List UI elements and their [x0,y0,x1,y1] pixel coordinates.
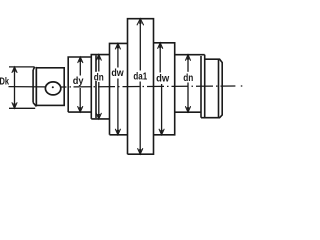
svg-text:da1: da1 [133,70,147,82]
svg-text:dw: dw [156,73,170,85]
svg-text:dn: dn [183,72,193,84]
svg-text:dw: dw [111,67,124,79]
svg-text:Dk: Dk [0,75,9,87]
svg-text:dy: dy [73,75,84,87]
svg-text:dn: dn [94,71,104,83]
